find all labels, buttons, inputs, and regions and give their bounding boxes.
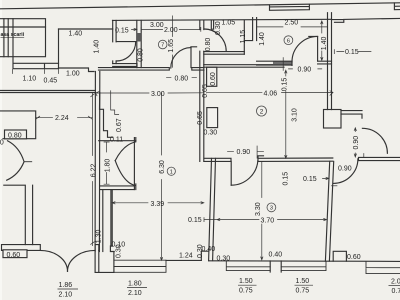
svg-text:0.65: 0.65 (197, 111, 204, 125)
main top wall (113, 19, 332, 20)
room1 top wall (double, door gap 0.80) (99, 68, 205, 71)
room6 door leaf (309, 36, 318, 61)
dim 3.39 line (112, 202, 204, 204)
niche wall bottom (59, 68, 95, 72)
svg-text:3.00: 3.00 (150, 22, 164, 29)
dim line 1.80 door (104, 142, 109, 184)
entrance double door leaf arc left (40, 250, 67, 271)
svg-text:0.90: 0.90 (338, 166, 352, 173)
svg-text:0.30: 0.30 (115, 244, 122, 258)
west wall lower (double) (4, 185, 33, 244)
svg-text:2.50: 2.50 (285, 20, 299, 27)
svg-text:1.50: 1.50 (239, 278, 253, 285)
svg-text:2.24: 2.24 (55, 115, 69, 122)
svg-text:0.60: 0.60 (7, 252, 21, 259)
svg-text:2.00: 2.00 (164, 27, 178, 34)
svg-text:0.15: 0.15 (282, 78, 289, 92)
room label circle 1 (167, 167, 175, 175)
balcony railing box 2 (394, 3, 400, 10)
dim 0.90 room6 ticks (289, 68, 322, 70)
niche wall left (58, 29, 60, 68)
door A arc (362, 128, 387, 153)
dim 2.24 line (36, 116, 93, 119)
svg-text:1.50: 1.50 (296, 278, 310, 285)
svg-text:1.05: 1.05 (222, 20, 236, 27)
dim 0.90 arrows door A (354, 128, 356, 157)
label box 0.60 room2 (207, 67, 217, 86)
svg-text:2.10: 2.10 (128, 290, 142, 297)
room6 west wall (double) (244, 18, 256, 41)
svg-text:3.30: 3.30 (255, 202, 262, 216)
left outer wall (double) (95, 72, 100, 252)
bathroom2 wall stub 0.30 (211, 21, 213, 30)
bottom wall segment 1.24 (166, 259, 201, 261)
svg-text:0.15: 0.15 (188, 217, 202, 224)
bottom wall under room3 (209, 260, 400, 263)
svg-text:0.15: 0.15 (345, 49, 359, 56)
fraction bar 2.05/0.75 (389, 285, 400, 287)
stairwell outline (0, 19, 46, 57)
wall bump 0.60 right (333, 251, 346, 261)
main dim chain 3.00/4.06 at y93 (96, 91, 334, 96)
balcony top edge line (0, 3, 400, 9)
room label circle 6 (284, 36, 293, 45)
room1 door leaf arc upper (115, 142, 135, 161)
stair landing lines (13, 57, 59, 69)
dim extension room3 door (256, 146, 258, 158)
svg-text:1.24: 1.24 (179, 253, 193, 260)
dim line 6.22 vertical (91, 93, 94, 245)
bathroom1 wall dark smudge (137, 33, 141, 42)
room7 door leaf (191, 47, 197, 68)
dim 1.40 room6 right (321, 21, 323, 60)
svg-text:1.30: 1.30 (96, 229, 103, 243)
bathroom1 door leaf (116, 41, 136, 43)
svg-text:1.80: 1.80 (105, 159, 112, 173)
right lower wall (double) (325, 161, 333, 261)
door jamb line room1 door (134, 138, 135, 190)
svg-text:0.15: 0.15 (283, 172, 290, 186)
top wall right section (332, 18, 400, 22)
window band C (281, 261, 326, 270)
svg-text:0.67: 0.67 (116, 118, 123, 132)
wall from pier to door A (341, 111, 362, 119)
bottom-left wall band (2, 245, 99, 251)
svg-text:1: 1 (170, 169, 173, 175)
dim extension 0.67 (111, 91, 119, 115)
svg-text:0.15: 0.15 (303, 176, 317, 183)
fraction bar 1.50/0.75 B (238, 284, 257, 286)
terrace door cusp tail (24, 161, 32, 163)
svg-text:0.30: 0.30 (217, 256, 231, 263)
outer wall bottom-left corner (95, 250, 114, 272)
svg-text:0.40: 0.40 (269, 252, 283, 259)
tick under door A arc (363, 154, 365, 158)
right upper wall (double) (328, 13, 332, 110)
svg-text:2.05: 2.05 (391, 279, 400, 286)
dim 3.70 line room3 (204, 218, 327, 222)
room3 door leaf (230, 161, 232, 185)
room label circle 7 (158, 40, 167, 49)
svg-text:1.40: 1.40 (321, 36, 328, 50)
fraction bar 1.80/2.10 (127, 286, 147, 288)
pier right middle (324, 110, 342, 129)
svg-text:1.00: 1.00 (66, 71, 80, 78)
dim 2.50 line (257, 25, 328, 29)
svg-text:0.15: 0.15 (115, 28, 129, 35)
svg-text:0.45: 0.45 (44, 78, 58, 85)
svg-text:1.86: 1.86 (59, 282, 73, 289)
svg-text:7: 7 (161, 43, 164, 49)
svg-text:1.40: 1.40 (259, 32, 266, 46)
dim 0.80 ticks room1 top (167, 76, 197, 78)
dim 0.15 top right (334, 50, 371, 54)
radiator rect room2 (207, 108, 218, 128)
label box 0.60 left (3, 250, 27, 258)
label box 0.80 (5, 130, 27, 139)
svg-text:2.10: 2.10 (59, 291, 73, 298)
room6 door arc (292, 36, 318, 62)
bathroom1 door arc (116, 42, 135, 61)
wall right of door B (359, 157, 400, 160)
svg-text:0.60: 0.60 (210, 72, 217, 86)
svg-text:2: 2 (260, 109, 264, 116)
dim 3.30 vertical room3 (261, 162, 263, 260)
svg-text:6.22: 6.22 (91, 164, 98, 178)
dim 1.65 line room7 (172, 16, 174, 68)
svg-text:6: 6 (287, 38, 290, 44)
window band A french door (114, 260, 166, 272)
right window band D (366, 261, 400, 273)
south wall of room2 east part (258, 158, 333, 161)
scanner left edge strip (0, 0, 2, 300)
dim chain vertical 0.15/3.10 (285, 70, 287, 158)
bathroom2 bottom wall (204, 52, 245, 55)
bathroom2 east wall (243, 21, 245, 55)
terrace pier top-left (0, 111, 36, 139)
bathroom2 door arc (204, 29, 226, 51)
hall east wall jog (110, 246, 114, 272)
svg-text:0.75: 0.75 (296, 288, 310, 295)
svg-text:0.90: 0.90 (353, 136, 360, 150)
svg-text:0.75: 0.75 (392, 288, 400, 295)
svg-text:0.65: 0.65 (202, 84, 209, 98)
room3 door jamb (258, 156, 264, 162)
svg-text:0.80: 0.80 (205, 38, 212, 52)
room6 bottom wall dark band (273, 61, 292, 65)
svg-text:1.15: 1.15 (240, 30, 247, 44)
svg-text:0.90: 0.90 (237, 149, 251, 156)
svg-text:0.80: 0.80 (137, 48, 144, 62)
svg-text:0.90: 0.90 (0, 140, 4, 147)
room label circle 3 (267, 203, 276, 212)
wall zigzag pipe chase (100, 93, 113, 138)
step 0.40 at room1/3 wall base (201, 251, 208, 260)
terrace door leaf arc upper (8, 141, 25, 162)
room6 bottom wall east (318, 61, 332, 64)
room label circle 2 (257, 106, 267, 116)
window band B (226, 261, 270, 271)
shaft west wall (102, 190, 104, 252)
svg-text:0.90: 0.90 (298, 67, 312, 74)
fraction bar 1.86/2.10 (58, 288, 79, 290)
room1-room3 wall (double) (209, 158, 216, 260)
door B arc (333, 159, 358, 184)
door B bottom tick (332, 185, 338, 187)
bathroom1 bottom wall (113, 64, 137, 68)
svg-text:asa scarii: asa scarii (1, 32, 25, 38)
hall south wall (100, 186, 134, 190)
svg-text:3.10: 3.10 (291, 108, 298, 122)
dim 0.90 ticks room3 door (228, 150, 264, 152)
dim 6.30 vertical room1 (160, 93, 162, 260)
room6 bottom wall west (257, 61, 292, 65)
stair flight lines (0, 19, 46, 57)
fraction bar 1.50/0.75 C (295, 284, 314, 286)
room2 north wall (204, 65, 284, 68)
svg-text:0.30: 0.30 (204, 130, 218, 137)
svg-text:3: 3 (270, 206, 273, 212)
wall end face at door jamb (291, 61, 293, 65)
pipe chase bottom line (99, 140, 136, 142)
svg-text:0.60: 0.60 (347, 254, 361, 261)
room7 door arc (171, 48, 191, 68)
svg-text:0.11: 0.11 (110, 137, 123, 144)
room2 west wall (double, door gap) (200, 20, 204, 161)
svg-text:4.06: 4.06 (264, 91, 278, 98)
balcony railing box 1 (270, 4, 310, 10)
entrance double door leaf arc right (68, 250, 95, 271)
south wall of room2 west part (204, 158, 231, 161)
room1 door leaf arc lower (115, 161, 135, 186)
hall east wall pair (111, 190, 112, 246)
svg-text:1.80: 1.80 (128, 280, 142, 287)
dim extension line crossing wall (282, 58, 284, 71)
svg-text:3.39: 3.39 (151, 201, 165, 208)
room3 door arc (231, 160, 258, 185)
svg-text:0.80: 0.80 (175, 76, 189, 83)
svg-text:1.65: 1.65 (168, 39, 175, 53)
exterior boundary line upper-left (0, 91, 95, 93)
svg-text:1.40: 1.40 (69, 31, 83, 38)
niche wall top (59, 28, 113, 30)
terrace door leaf arc lower (7, 162, 24, 180)
svg-text:0.40: 0.40 (202, 246, 216, 253)
svg-text:1.40: 1.40 (94, 40, 101, 54)
dim ticks 1.10/0.45 (12, 70, 58, 74)
svg-text:3.70: 3.70 (261, 217, 275, 224)
window pier 0.40 (270, 261, 281, 272)
bathroom1 west wall (double, door gap) (113, 20, 116, 63)
dim 0.15 arrow right-mid (323, 177, 329, 179)
dim 3.00/2.00 line top (132, 27, 201, 31)
svg-text:0.80: 0.80 (8, 133, 22, 140)
svg-text:0.75: 0.75 (239, 288, 253, 295)
svg-text:3.00: 3.00 (151, 91, 165, 98)
bathroom1-room7 wall (double) (137, 20, 141, 67)
svg-text:6.30: 6.30 (159, 160, 166, 174)
svg-text:1.10: 1.10 (23, 76, 37, 83)
